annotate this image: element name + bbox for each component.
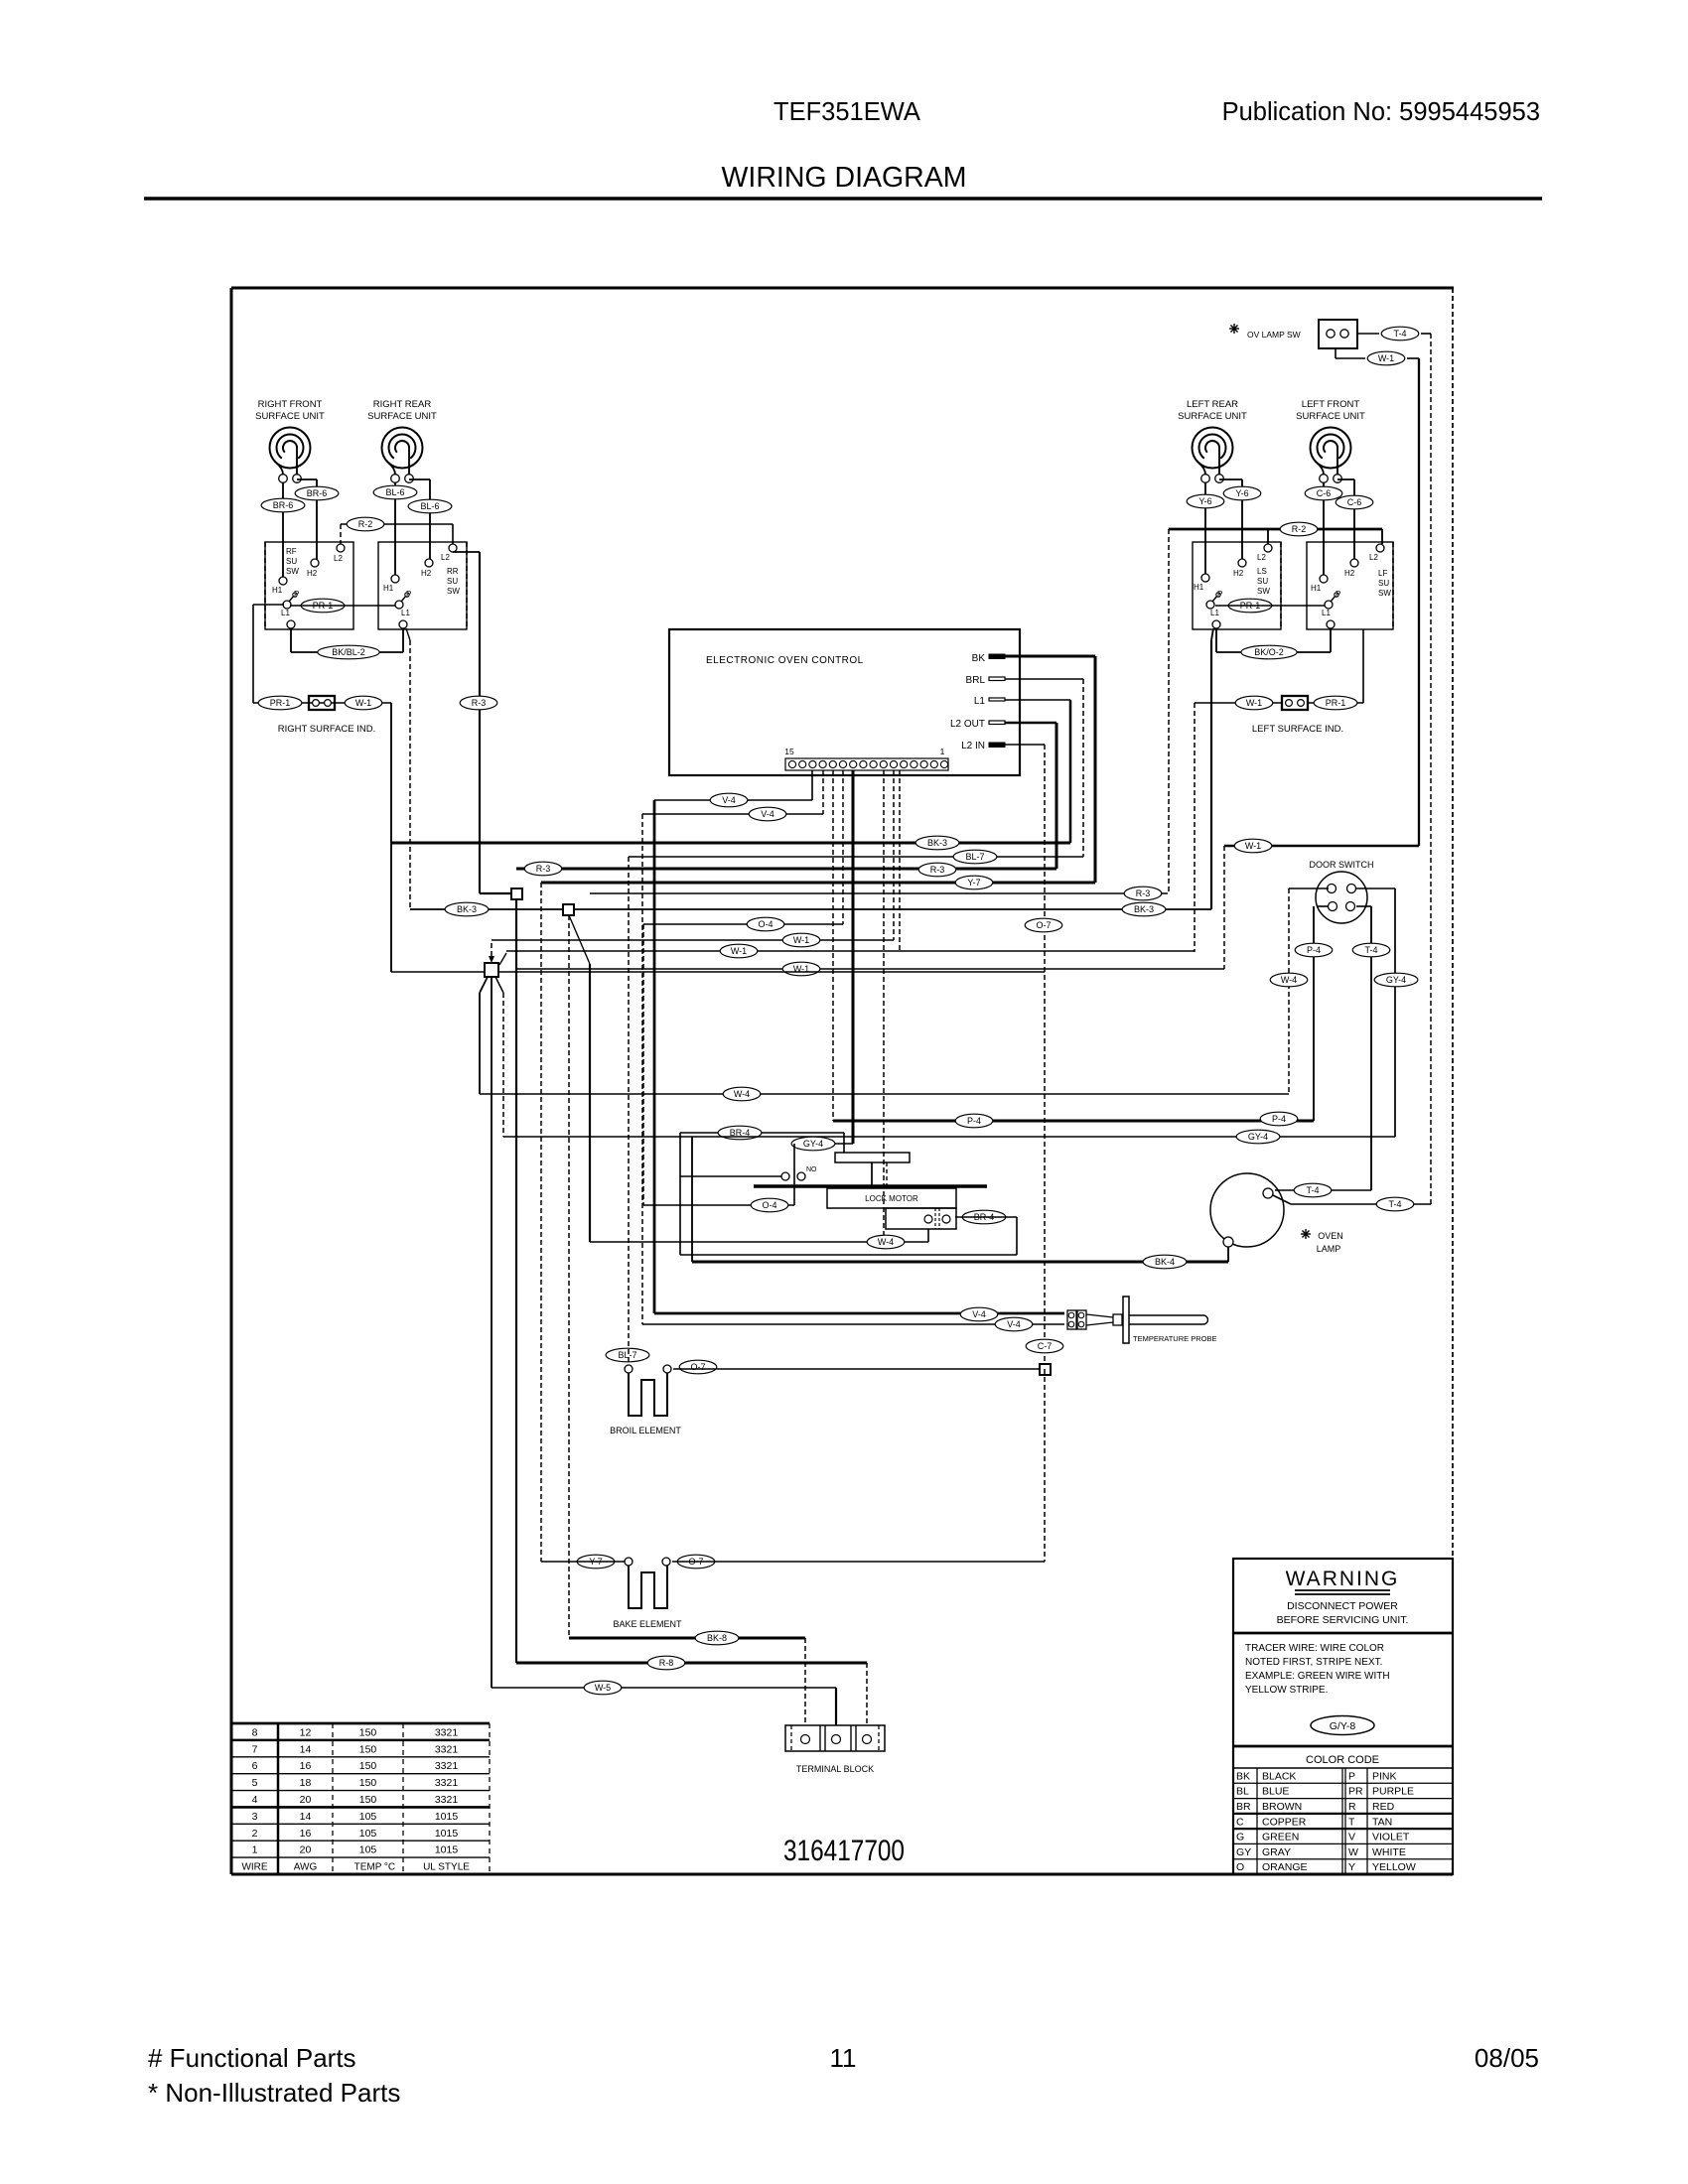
svg-text:20: 20 xyxy=(300,1844,312,1856)
svg-text:W-4: W-4 xyxy=(1281,975,1297,985)
svg-text:OV LAMP SW: OV LAMP SW xyxy=(1247,330,1301,340)
svg-text:PR: PR xyxy=(1348,1786,1363,1798)
svg-text:Y-7: Y-7 xyxy=(967,878,980,887)
svg-text:SW: SW xyxy=(447,587,460,596)
svg-text:V: V xyxy=(1348,1832,1355,1843)
svg-text:RF: RF xyxy=(286,547,297,556)
svg-text:H2: H2 xyxy=(1233,569,1244,578)
svg-text:T-4: T-4 xyxy=(1364,945,1377,955)
svg-text:# Functional Parts: # Functional Parts xyxy=(148,2043,356,2073)
svg-text:105: 105 xyxy=(359,1844,377,1856)
svg-text:L1: L1 xyxy=(974,696,986,707)
svg-text:BL-7: BL-7 xyxy=(618,1350,636,1360)
svg-text:BL-6: BL-6 xyxy=(420,501,439,511)
svg-text:UL STYLE: UL STYLE xyxy=(423,1862,470,1873)
svg-text:V-4: V-4 xyxy=(972,1309,986,1319)
svg-text:WIRING DIAGRAM: WIRING DIAGRAM xyxy=(722,162,967,194)
svg-text:T-4: T-4 xyxy=(1388,1199,1401,1209)
svg-text:BK-3: BK-3 xyxy=(927,838,947,848)
svg-text:2: 2 xyxy=(252,1828,258,1840)
svg-text:P: P xyxy=(1336,590,1340,599)
svg-text:W-5: W-5 xyxy=(595,1683,611,1693)
svg-text:3: 3 xyxy=(252,1811,258,1823)
svg-text:DISCONNECT POWER: DISCONNECT POWER xyxy=(1287,1600,1398,1612)
svg-text:V-4: V-4 xyxy=(761,809,774,819)
svg-text:105: 105 xyxy=(359,1811,377,1823)
svg-text:P-4: P-4 xyxy=(1272,1114,1286,1124)
svg-text:TEMP: TEMP xyxy=(354,1862,382,1873)
svg-text:SU: SU xyxy=(1257,577,1268,586)
svg-text:C: C xyxy=(1236,1816,1244,1828)
svg-text:R-2: R-2 xyxy=(358,519,373,529)
svg-text:PR-1: PR-1 xyxy=(270,698,291,708)
svg-text:LEFT SURFACE IND.: LEFT SURFACE IND. xyxy=(1252,724,1343,735)
svg-text:P: P xyxy=(294,590,299,599)
svg-text:PURPLE: PURPLE xyxy=(1372,1786,1414,1798)
svg-text:TAN: TAN xyxy=(1372,1816,1392,1828)
svg-text:H2: H2 xyxy=(421,569,432,578)
svg-text:L1: L1 xyxy=(281,609,290,617)
svg-text:W: W xyxy=(1348,1846,1358,1858)
svg-text:TERMINAL BLOCK: TERMINAL BLOCK xyxy=(796,1764,874,1774)
svg-text:3321: 3321 xyxy=(435,1726,459,1738)
svg-text:GY: GY xyxy=(1236,1846,1251,1858)
svg-text:Y-6: Y-6 xyxy=(1198,496,1211,506)
svg-text:BL-7: BL-7 xyxy=(965,852,984,862)
svg-text:L2 IN: L2 IN xyxy=(961,741,985,751)
svg-text:SW: SW xyxy=(1378,589,1391,598)
svg-text:VIOLET: VIOLET xyxy=(1372,1832,1410,1843)
svg-text:SU: SU xyxy=(286,557,297,566)
svg-text:R: R xyxy=(1348,1801,1356,1813)
svg-text:16: 16 xyxy=(300,1760,312,1772)
svg-text:R-8: R-8 xyxy=(659,1658,674,1668)
svg-text:1015: 1015 xyxy=(435,1828,459,1840)
svg-text:SURFACE UNIT: SURFACE UNIT xyxy=(367,411,437,422)
svg-text:SURFACE UNIT: SURFACE UNIT xyxy=(1178,411,1247,422)
svg-text:O: O xyxy=(1236,1861,1244,1873)
svg-text:BROIL ELEMENT: BROIL ELEMENT xyxy=(610,1426,681,1435)
svg-text:GRAY: GRAY xyxy=(1262,1846,1291,1858)
svg-text:BL: BL xyxy=(1236,1786,1249,1798)
svg-text:150: 150 xyxy=(359,1760,377,1772)
svg-text:GREEN: GREEN xyxy=(1262,1832,1299,1843)
svg-text:150: 150 xyxy=(359,1777,377,1789)
svg-text:O-7: O-7 xyxy=(690,1362,705,1372)
svg-text:SURFACE UNIT: SURFACE UNIT xyxy=(255,411,325,422)
svg-text:14: 14 xyxy=(300,1811,312,1823)
svg-text:4: 4 xyxy=(252,1794,258,1806)
svg-text:C-6: C-6 xyxy=(1347,497,1362,507)
svg-text:L1: L1 xyxy=(401,609,410,617)
svg-text:7: 7 xyxy=(252,1743,258,1755)
svg-text:BR: BR xyxy=(1236,1801,1251,1813)
svg-text:08/05: 08/05 xyxy=(1475,2043,1539,2073)
svg-text:105: 105 xyxy=(359,1828,377,1840)
svg-text:BL-6: BL-6 xyxy=(385,487,404,497)
svg-text:SW: SW xyxy=(1257,587,1270,596)
svg-text:H2: H2 xyxy=(1344,569,1355,578)
svg-text:BLACK: BLACK xyxy=(1262,1770,1296,1782)
svg-text:11: 11 xyxy=(830,2043,857,2073)
svg-text:NOTED FIRST, STRIPE NEXT.: NOTED FIRST, STRIPE NEXT. xyxy=(1245,1657,1382,1668)
svg-text:G: G xyxy=(1236,1832,1244,1843)
svg-text:8: 8 xyxy=(252,1726,258,1738)
svg-text:BEFORE SERVICING UNIT.: BEFORE SERVICING UNIT. xyxy=(1277,1614,1409,1626)
svg-text:6: 6 xyxy=(252,1760,258,1772)
svg-text:GY-4: GY-4 xyxy=(1248,1132,1268,1142)
svg-text:H1: H1 xyxy=(1194,583,1204,592)
svg-text:H1: H1 xyxy=(383,584,394,593)
svg-text:150: 150 xyxy=(359,1794,377,1806)
svg-text:O-4: O-4 xyxy=(762,1200,776,1210)
svg-text:BR-6: BR-6 xyxy=(273,500,294,510)
svg-text:YELLOW STRIPE.: YELLOW STRIPE. xyxy=(1245,1685,1328,1696)
svg-text:SURFACE UNIT: SURFACE UNIT xyxy=(1296,411,1365,422)
svg-text:BK/BL-2: BK/BL-2 xyxy=(332,647,365,657)
svg-text:150: 150 xyxy=(359,1726,377,1738)
svg-text:1015: 1015 xyxy=(435,1811,459,1823)
svg-text:ORANGE: ORANGE xyxy=(1262,1861,1308,1873)
svg-text:LEFT REAR: LEFT REAR xyxy=(1187,399,1238,410)
svg-text:3321: 3321 xyxy=(435,1743,459,1755)
svg-text:V-4: V-4 xyxy=(722,795,736,805)
svg-text:C-6: C-6 xyxy=(1317,488,1332,498)
svg-text:R-3: R-3 xyxy=(472,698,487,708)
svg-text:PR-1: PR-1 xyxy=(1326,698,1346,708)
svg-text:W-4: W-4 xyxy=(734,1089,750,1099)
svg-text:L2: L2 xyxy=(1257,553,1266,562)
svg-text:RIGHT REAR: RIGHT REAR xyxy=(373,399,432,410)
svg-text:BK: BK xyxy=(972,653,986,664)
svg-text:C-7: C-7 xyxy=(1038,1341,1053,1351)
svg-text:L2: L2 xyxy=(1369,553,1378,562)
svg-text:EXAMPLE: GREEN WIRE WIT: EXAMPLE: GREEN WIRE WITH xyxy=(1245,1671,1390,1682)
svg-text:PINK: PINK xyxy=(1372,1770,1397,1782)
svg-text:COPPER: COPPER xyxy=(1262,1816,1307,1828)
svg-text:W-4: W-4 xyxy=(878,1237,894,1247)
svg-text:NO: NO xyxy=(806,1166,817,1173)
svg-text:16: 16 xyxy=(300,1828,312,1840)
svg-text:O-4: O-4 xyxy=(758,919,773,929)
svg-text:WARNING: WARNING xyxy=(1286,1568,1400,1590)
svg-text:L1: L1 xyxy=(1322,609,1331,617)
svg-text:BAKE ELEMENT: BAKE ELEMENT xyxy=(613,1619,682,1629)
svg-text:P-4: P-4 xyxy=(967,1116,981,1126)
svg-text:H2: H2 xyxy=(307,569,318,578)
svg-text:O-7: O-7 xyxy=(1036,920,1051,930)
svg-text:YELLOW: YELLOW xyxy=(1372,1861,1416,1873)
svg-text:R-3: R-3 xyxy=(536,864,551,874)
svg-text:P: P xyxy=(1348,1770,1355,1782)
svg-text:TEMPERATURE PROBE: TEMPERATURE PROBE xyxy=(1133,1334,1216,1343)
svg-text:GY-4: GY-4 xyxy=(1386,975,1406,985)
svg-text:T-4: T-4 xyxy=(1306,1185,1319,1195)
svg-text:* Non-Illustrated Parts: * Non-Illustrated Parts xyxy=(148,2078,400,2108)
svg-text:Publication No: 5995445953: Publication No: 5995445953 xyxy=(1222,98,1540,126)
svg-text:L2: L2 xyxy=(441,553,450,562)
svg-text:1015: 1015 xyxy=(435,1844,459,1856)
svg-text:H1: H1 xyxy=(1311,584,1322,593)
svg-text:5: 5 xyxy=(252,1777,258,1789)
svg-text:BRL: BRL xyxy=(966,675,986,686)
svg-text:AWG: AWG xyxy=(294,1862,318,1873)
svg-text:T: T xyxy=(1348,1816,1355,1828)
svg-text:316417700: 316417700 xyxy=(783,1835,905,1867)
svg-text:20: 20 xyxy=(300,1794,312,1806)
svg-text:BK-3: BK-3 xyxy=(1134,904,1154,914)
svg-text:L2 OUT: L2 OUT xyxy=(950,719,985,730)
svg-text:3321: 3321 xyxy=(435,1760,459,1772)
svg-text:LF: LF xyxy=(1378,569,1387,578)
svg-text:GY-4: GY-4 xyxy=(803,1139,823,1149)
svg-text:TEF351EWA: TEF351EWA xyxy=(774,98,920,126)
svg-text:RIGHT SURFACE IND.: RIGHT SURFACE IND. xyxy=(278,724,376,735)
svg-text:15: 15 xyxy=(784,747,794,756)
svg-text:SW: SW xyxy=(286,567,299,576)
svg-text:R-3: R-3 xyxy=(930,865,945,875)
svg-text:W-1: W-1 xyxy=(731,946,747,956)
svg-text:Y-6: Y-6 xyxy=(1235,488,1248,498)
svg-text:L1: L1 xyxy=(1210,609,1219,617)
svg-text:BK-4: BK-4 xyxy=(1155,1257,1175,1267)
svg-text:°C: °C xyxy=(384,1862,395,1873)
svg-text:DOOR SWITCH: DOOR SWITCH xyxy=(1310,860,1374,870)
svg-text:L2: L2 xyxy=(334,554,343,563)
svg-text:LOCK MOTOR: LOCK MOTOR xyxy=(865,1194,918,1203)
svg-text:G/Y-8: G/Y-8 xyxy=(1330,1720,1356,1732)
svg-text:LAMP: LAMP xyxy=(1317,1244,1341,1254)
svg-text:COLOR CODE: COLOR CODE xyxy=(1306,1754,1379,1766)
svg-text:V-4: V-4 xyxy=(1007,1319,1021,1329)
svg-text:LS: LS xyxy=(1257,567,1267,576)
svg-text:14: 14 xyxy=(300,1743,312,1755)
svg-text:H1: H1 xyxy=(272,586,283,595)
svg-text:Y: Y xyxy=(1348,1861,1355,1873)
svg-text:BK: BK xyxy=(1236,1770,1250,1782)
svg-text:SU: SU xyxy=(1378,579,1389,588)
svg-text:W-1: W-1 xyxy=(1246,698,1262,708)
svg-text:WHITE: WHITE xyxy=(1372,1846,1406,1858)
svg-text:R-2: R-2 xyxy=(1292,524,1307,534)
svg-text:TRACER WIRE: WIRE COLOR: TRACER WIRE: WIRE COLOR xyxy=(1245,1643,1384,1654)
svg-text:1: 1 xyxy=(252,1844,258,1856)
svg-text:P-4: P-4 xyxy=(1307,945,1321,955)
svg-text:WIRE: WIRE xyxy=(241,1862,267,1873)
svg-text:3321: 3321 xyxy=(435,1794,459,1806)
svg-text:W-1: W-1 xyxy=(793,935,809,945)
svg-text:RED: RED xyxy=(1372,1801,1395,1813)
svg-text:3321: 3321 xyxy=(435,1777,459,1789)
svg-text:RIGHT FRONT: RIGHT FRONT xyxy=(258,399,323,410)
svg-text:BK/O-2: BK/O-2 xyxy=(1254,647,1284,657)
svg-text:150: 150 xyxy=(359,1743,377,1755)
svg-text:BK-3: BK-3 xyxy=(457,904,477,914)
svg-text:LEFT FRONT: LEFT FRONT xyxy=(1302,399,1360,410)
svg-text:P: P xyxy=(1217,590,1222,599)
svg-text:BK-8: BK-8 xyxy=(707,1633,727,1643)
svg-text:R-3: R-3 xyxy=(1136,888,1151,898)
svg-text:T-4: T-4 xyxy=(1393,329,1406,339)
svg-text:12: 12 xyxy=(300,1726,312,1738)
svg-text:ELECTRONIC OVEN CONTROL: ELECTRONIC OVEN CONTROL xyxy=(706,655,864,666)
svg-text:SU: SU xyxy=(447,577,458,586)
svg-text:BR-6: BR-6 xyxy=(307,488,328,498)
svg-text:18: 18 xyxy=(300,1777,312,1789)
svg-text:RR: RR xyxy=(447,567,459,576)
svg-text:W-1: W-1 xyxy=(1245,841,1261,851)
svg-text:BROWN: BROWN xyxy=(1262,1801,1302,1813)
svg-text:W-1: W-1 xyxy=(1378,353,1394,363)
svg-text:W-1: W-1 xyxy=(355,698,371,708)
svg-text:OVEN: OVEN xyxy=(1318,1231,1343,1241)
svg-text:P: P xyxy=(406,590,411,599)
svg-text:1: 1 xyxy=(940,747,945,756)
svg-text:BLUE: BLUE xyxy=(1262,1786,1289,1798)
